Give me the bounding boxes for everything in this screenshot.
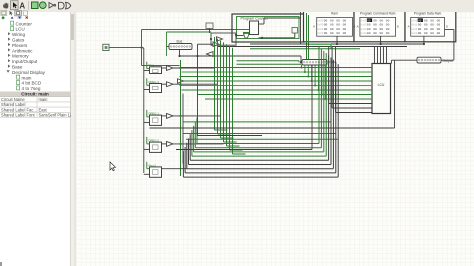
svg-text:A: A — [408, 25, 410, 29]
svg-text:D: D — [446, 25, 448, 29]
svg-text:Shared Label Font: Shared Label Font — [1, 113, 36, 118]
wires into CU top — [374, 47, 376, 64]
svg-text:. . .: . . . — [426, 34, 430, 37]
svg-text:LCU: LCU — [16, 27, 25, 32]
upper green feeds toward Input — [237, 60, 300, 62]
svg-text:Output: Output — [443, 59, 453, 63]
toolbox view button — [1, 10, 7, 15]
attribute table — [0, 91, 71, 118]
input pin icon — [32, 2, 39, 9]
svg-text:Memory: Memory — [12, 54, 29, 59]
svg-text:00: 00 — [324, 19, 328, 22]
subcircuit box Program Counter — [232, 14, 304, 42]
bright green wire under Ram — [309, 43, 331, 45]
buffer gate G3 (left) — [207, 52, 214, 57]
main toolbar — [0, 0, 474, 13]
svg-text:00: 00 — [330, 28, 334, 31]
svg-text:00: 00 — [373, 24, 377, 27]
buffer after DREG 3 — [167, 82, 174, 87]
svg-text:00: 00 — [386, 32, 390, 35]
svg-text:00: 00 — [386, 28, 390, 31]
wire green vert x166 — [166, 32, 168, 56]
svg-text:00: 00 — [437, 19, 441, 22]
svg-text:main: main — [39, 97, 49, 102]
svg-text:00: 00 — [430, 19, 434, 22]
wire run under RAM row — [250, 43, 424, 45]
svg-text:00: 00 — [367, 19, 371, 22]
svg-text:SansSerif Plain 12: SansSerif Plain 12 — [39, 113, 72, 118]
svg-text:00: 00 — [324, 32, 328, 35]
svg-text:00: 00 — [373, 28, 377, 31]
input pin In — [103, 44, 109, 50]
svg-text:00: 00 — [386, 24, 390, 27]
splitter Input — [302, 60, 327, 66]
wire bus stem — [179, 50, 181, 57]
svg-text:00: 00 — [430, 24, 434, 27]
svg-text:LCU: LCU — [378, 83, 385, 87]
RAM Program Command Ram — [360, 17, 396, 36]
wire green y48 — [250, 48, 360, 50]
junction at cluster — [210, 38, 212, 40]
panel vertical scrollbar — [70, 12, 75, 266]
svg-text:main: main — [22, 75, 32, 80]
splitter legs staircase — [301, 65, 303, 68]
svg-text:Decimal Display: Decimal Display — [12, 70, 46, 75]
wire long green top horizontal — [142, 29, 251, 31]
svg-text:00: 00 — [367, 28, 371, 31]
RAM bottom stubs and wire runs — [336, 36, 338, 44]
svg-text:00: 00 — [373, 19, 377, 22]
svg-text:Ram: Ram — [331, 12, 338, 16]
OR gate icon — [66, 2, 71, 9]
long dark runs lower — [197, 56, 199, 136]
buffer after DREG 1 — [167, 113, 174, 118]
svg-text:00: 00 — [418, 32, 422, 35]
wire green horizontal y65 — [142, 65, 180, 67]
wire bus left — [167, 46, 170, 48]
svg-text:00: 00 — [343, 24, 347, 27]
svg-text:00: 00 — [343, 32, 347, 35]
svg-text:00: 00 — [380, 24, 384, 27]
outer loop wire — [394, 60, 396, 128]
RAM block row outer boxes — [304, 11, 355, 42]
wire probe to cluster — [209, 29, 211, 34]
svg-text:00: 00 — [324, 28, 328, 31]
svg-text:00: 00 — [386, 19, 390, 22]
long dark run to Input — [180, 55, 302, 57]
wires along RAM1 left edge — [300, 11, 302, 44]
project explorer tree — [0, 0, 74, 100]
appearance button — [23, 11, 27, 15]
svg-text:Wiring: Wiring — [12, 32, 25, 37]
svg-text:00: 00 — [367, 24, 371, 27]
svg-text:00: 00 — [424, 28, 428, 31]
left explorer/attribute panel — [0, 12, 70, 266]
splitter Output — [417, 57, 441, 63]
svg-text:00: 00 — [336, 19, 340, 22]
svg-text:Counter: Counter — [16, 21, 33, 26]
wire to mux — [237, 35, 244, 37]
wire into counter — [237, 29, 250, 31]
green rail bundle into LCU — [180, 67, 373, 69]
add circuit (green) — [2, 16, 5, 19]
svg-text:00: 00 — [418, 28, 422, 31]
move up (blue) — [11, 17, 14, 19]
svg-text:00: 00 — [418, 19, 422, 22]
nested wire loops bottom — [197, 143, 319, 145]
edit tool (selected arrow button) — [11, 1, 19, 10]
svg-text:D: D — [397, 25, 399, 29]
wire probe stem — [294, 33, 296, 38]
svg-text:00: 00 — [437, 24, 441, 27]
long green verticals x180 — [180, 60, 182, 176]
vertical green bundle — [214, 37, 216, 130]
wire second green horizontal — [167, 31, 212, 33]
svg-text:00: 00 — [336, 24, 340, 27]
wire pin to green vertical — [109, 47, 142, 49]
wire run under RAM row 2 — [217, 46, 407, 48]
buffer after DREG 0 — [167, 141, 174, 146]
explorer toolbar — [0, 10, 70, 20]
svg-text:Reg: Reg — [149, 63, 155, 67]
svg-text:4 bit BCD: 4 bit BCD — [22, 81, 42, 86]
svg-text:00: 00 — [324, 24, 328, 27]
RAM3 D wire to right edge — [445, 29, 454, 31]
splitter Bus — [169, 44, 192, 50]
remove circuit (red x) — [26, 17, 28, 19]
wire vert x197 — [197, 44, 199, 56]
selected layout button — [15, 10, 22, 16]
svg-text:00: 00 — [418, 24, 422, 27]
svg-text:Bus: Bus — [177, 39, 183, 43]
RAM Program Data Ram — [411, 17, 445, 36]
output pin icon — [40, 2, 47, 9]
svg-text:. . .: . . . — [376, 34, 380, 37]
wire CU to Output — [392, 59, 418, 61]
simulation view button — [10, 11, 13, 16]
svg-text:00: 00 — [437, 28, 441, 31]
svg-text:00: 00 — [336, 32, 340, 35]
svg-text:00: 00 — [424, 24, 428, 27]
buffer after Reg — [167, 66, 174, 71]
svg-text:00: 00 — [367, 32, 371, 35]
mouse cursor — [110, 162, 116, 171]
svg-text:Arithmetic: Arithmetic — [12, 48, 33, 53]
register column spine — [143, 48, 145, 173]
svg-text:Program Command Ram: Program Command Ram — [360, 12, 396, 16]
wire green vertical x141 — [141, 30, 143, 66]
gate cluster box — [211, 33, 236, 45]
move down (blue, highlighted) — [17, 16, 21, 19]
svg-text:00: 00 — [380, 19, 384, 22]
probe pin in PC box — [292, 28, 298, 34]
splitter divider — [74, 12, 77, 266]
svg-text:Plexers: Plexers — [12, 43, 28, 48]
small buffer on rail k3 — [178, 79, 184, 84]
buffer gate G2 — [213, 42, 219, 47]
wire pc chip out — [259, 23, 265, 25]
RAM Ram — [317, 17, 353, 36]
svg-text:Base: Base — [12, 65, 23, 70]
svg-text:00: 00 — [437, 32, 441, 35]
svg-text:Input/Output: Input/Output — [12, 59, 38, 64]
mid-band green runs — [183, 121, 331, 123]
svg-text:00: 00 — [330, 24, 334, 27]
svg-text:00: 00 — [343, 28, 347, 31]
svg-text:A: A — [313, 25, 315, 29]
svg-text:00: 00 — [380, 28, 384, 31]
subcircuit box LCU — [372, 64, 391, 114]
svg-text:Program Data Ram: Program Data Ram — [414, 12, 442, 16]
NOT gate icon — [49, 3, 54, 9]
wire to G2 — [198, 43, 214, 45]
probe box above gate cluster — [206, 23, 213, 29]
AND gate icon — [59, 2, 65, 9]
svg-text:00: 00 — [380, 32, 384, 35]
svg-text:00: 00 — [430, 32, 434, 35]
counter chip inside Program Counter — [250, 21, 259, 35]
wire into counter 2 — [243, 32, 250, 34]
svg-text:00: 00 — [336, 28, 340, 31]
svg-text:00: 00 — [424, 19, 428, 22]
junction pc — [261, 37, 263, 39]
svg-text:A: A — [357, 25, 359, 29]
svg-text:00: 00 — [343, 19, 347, 22]
svg-text:00: 00 — [330, 19, 334, 22]
wire pc bottom run — [259, 37, 295, 39]
svg-text:. . .: . . . — [333, 34, 337, 37]
wire Output right — [441, 59, 454, 61]
svg-text:Gates: Gates — [12, 38, 25, 43]
small mux gate in PC box — [244, 34, 250, 39]
poke tool (hand) icon — [3, 3, 8, 9]
buffer gate G1 — [217, 37, 223, 42]
svg-text:00: 00 — [430, 28, 434, 31]
green loop inside Program Counter — [237, 17, 300, 39]
separator — [28, 1, 30, 10]
svg-text:D: D — [353, 25, 355, 29]
